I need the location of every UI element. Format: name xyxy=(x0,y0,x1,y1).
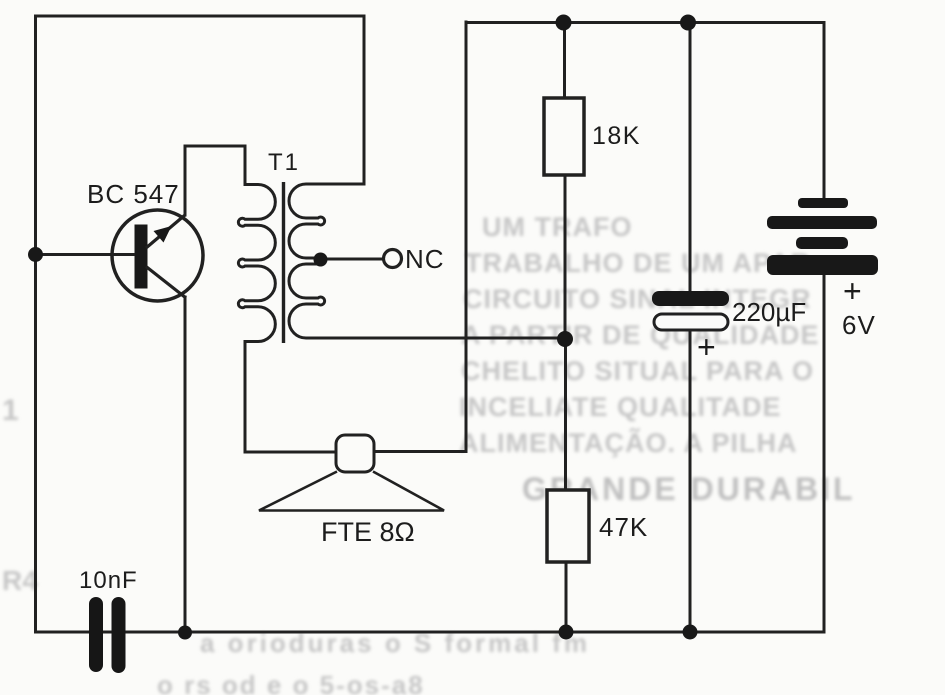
wire right rail lower (from battery) xyxy=(823,275,826,631)
transistor Q1 base wire inside xyxy=(112,253,135,256)
node dot bottom rail 47K xyxy=(559,625,574,640)
svg-text:10nF: 10nF xyxy=(79,567,138,594)
svg-text:R4: R4 xyxy=(2,565,38,596)
node dot transformer tap xyxy=(314,253,328,267)
svg-text:NC: NC xyxy=(405,244,445,274)
svg-text:T1: T1 xyxy=(268,149,300,176)
wire 18K bottom to node xyxy=(564,175,567,339)
wire NC tap xyxy=(320,258,384,261)
wire right side of left loop xyxy=(363,16,366,184)
transistor Q1 base bar xyxy=(135,225,148,289)
svg-text:+: + xyxy=(697,329,716,365)
transistor Q1 emitter line xyxy=(146,267,186,299)
wire collector to primary top xyxy=(185,145,245,148)
ghost bleed-through text (background artifacts) xyxy=(2,212,856,695)
svg-text:CHELITO SITUAL PARA O: CHELITO SITUAL PARA O xyxy=(461,356,814,386)
speaker FTE cone xyxy=(259,472,444,511)
capacitor C1 right plate xyxy=(112,604,126,666)
capacitor C1 left plate xyxy=(89,604,103,665)
node dot emitter-bottom rail xyxy=(178,626,192,640)
capacitor C2 bottom plate xyxy=(654,314,728,330)
speaker FTE box xyxy=(336,435,374,472)
wire 220uF bottom xyxy=(689,330,692,632)
wire top rail xyxy=(466,21,824,24)
wire speaker right lead xyxy=(374,450,466,453)
transformer T1 secondary winding xyxy=(289,184,565,338)
wire emitter vertical xyxy=(184,297,187,632)
resistor R2 box xyxy=(547,490,589,562)
transistor Q1 arrowhead xyxy=(154,226,172,243)
battery B1 plate 1 xyxy=(798,198,848,208)
node dot base-left rail xyxy=(28,247,43,262)
wire bottom rail xyxy=(36,631,825,634)
terminal NC circle xyxy=(384,250,402,268)
svg-text:BC 547: BC 547 xyxy=(87,179,180,209)
svg-text:+: + xyxy=(843,273,862,309)
svg-text:1: 1 xyxy=(2,394,19,427)
wire left rail xyxy=(34,16,37,632)
svg-text:18K: 18K xyxy=(592,122,641,150)
capacitor C2 top plate xyxy=(652,291,729,306)
node dot mid 18K/47K xyxy=(557,331,573,347)
transistor Q1 circle xyxy=(112,210,203,301)
battery B1 plate 4 xyxy=(767,255,878,275)
battery B1 plate 3 xyxy=(796,237,848,249)
svg-text:47K: 47K xyxy=(599,512,648,542)
svg-text:220µF: 220µF xyxy=(732,297,806,327)
wire 47K bottom xyxy=(565,562,568,632)
wire right rail upper (to battery) xyxy=(823,23,826,199)
node dot bottom rail 220uF xyxy=(683,625,698,640)
wire 220uF top xyxy=(689,23,692,293)
wire base xyxy=(36,253,136,256)
resistor R1 box xyxy=(544,98,584,175)
node dot top rail 18K xyxy=(556,15,572,31)
transformer T1 core xyxy=(282,182,285,343)
svg-text:UM TRAFO: UM TRAFO xyxy=(482,212,632,242)
svg-text:FTE 8Ω: FTE 8Ω xyxy=(321,517,415,547)
wire 18K top xyxy=(563,23,566,99)
svg-text:INCELIATE QUALITADE: INCELIATE QUALITADE xyxy=(459,392,782,422)
svg-text:o rs od e o 5-os-a8: o rs od e o 5-os-a8 xyxy=(157,670,425,695)
svg-text:TRABALHO DE UM APAR: TRABALHO DE UM APAR xyxy=(465,248,811,278)
node dot top rail 220uF xyxy=(680,15,696,31)
svg-text:ALIMENTAÇÃO. A PILHA: ALIMENTAÇÃO. A PILHA xyxy=(459,427,797,458)
wire collector vertical xyxy=(184,146,187,215)
wire long vertical from top rail to speaker xyxy=(465,22,468,452)
svg-text:6V: 6V xyxy=(842,310,876,340)
transistor Q1 collector line xyxy=(146,215,185,248)
wire top-left rail xyxy=(36,15,365,18)
wire node to 47K top xyxy=(564,339,567,490)
battery B1 plate 2 xyxy=(767,216,877,229)
transformer T1 primary winding xyxy=(238,146,336,452)
